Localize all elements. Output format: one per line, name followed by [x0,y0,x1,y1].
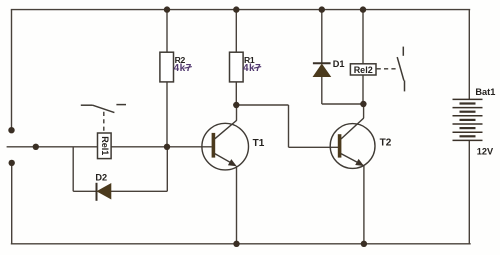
wire R1 bottom lead [235,82,237,105]
wire T1 emitter vertical [236,166,238,244]
relay coil Rel2 [350,64,376,75]
wire R2 top lead [166,10,168,53]
wire T2 emitter vertical [363,166,365,244]
wire left rail upper segment [11,10,13,128]
relay contact switch (above Rel1, open) [81,105,126,113]
node dot top rail Rel2 [360,6,366,12]
battery Bat1 [453,99,483,140]
svg-text:Bat1: Bat1 [475,87,495,97]
transistor T1 [202,120,265,169]
wire D2 branch right horizontal [111,190,168,192]
wire left rail lower segment [11,163,13,244]
wire top supply rail [11,9,470,11]
node B dot (R1 / T1 collector) [233,102,239,108]
node dot top rail R1 [233,6,239,12]
wire D1 to node C horizontal [322,103,364,105]
wire T2 collector vertical [363,104,365,118]
wire D2 branch left vertical [72,147,74,192]
svg-text:T1: T1 [253,138,265,149]
wire T1 collector vertical [236,105,238,121]
svg-text:T2: T2 [380,137,392,148]
relay coil Rel1 [98,133,112,159]
value label 4k7 (R2) [174,63,192,74]
svg-text:Rel2: Rel2 [354,65,373,75]
resistor R1 [230,52,255,82]
transistor T2 [330,118,392,168]
node A dot (R2 / Rel1 / D2 / T1 base) [164,144,170,150]
wire node A main horizontal (switch arm to T1 base) [7,146,212,148]
svg-text:D2: D2 [95,172,107,182]
contact dot left upper [8,127,14,133]
wire right rail upper (to battery) [468,10,470,100]
node dot switch arm pivot [33,144,39,150]
svg-text:Rel1: Rel1 [100,136,110,155]
dashed actuator link Rel2 [377,68,398,70]
node dot bottom rail T1 emitter [233,241,239,247]
relay contact switch (right, open) [397,47,404,92]
wire R1 top lead [235,10,237,53]
value label 4k7 (R1) [243,63,261,74]
wire R2 bottom lead [166,82,168,147]
dashed actuator link Rel1 [103,112,105,133]
wire D2 branch left horizontal [73,190,96,192]
node C dot (D1 / Rel2 / T2 collector) [360,101,366,107]
node dot top rail R2 [164,6,170,12]
node dot top rail D1 [319,6,325,12]
wire D1 bottom lead [321,76,323,104]
svg-text:12V: 12V [477,147,494,157]
wire right rail lower (from battery) [468,140,470,243]
wire node B horizontal (R1 to T2 base link) [236,104,288,106]
svg-text:4k7: 4k7 [174,63,192,74]
svg-text:4k7: 4k7 [243,63,261,74]
svg-text:D1: D1 [333,59,345,69]
wire D1 top lead [321,10,323,64]
wire Rel2 top lead [362,10,364,64]
wire link vertical down [288,105,290,147]
node dot bottom rail T2 emitter [361,241,367,247]
diode D2 [95,172,110,200]
wire D2 branch right vertical [166,147,168,192]
wire T2 base horizontal [289,146,339,148]
contact dot left lower [9,160,15,166]
diode D1 [313,59,345,77]
wire bottom supply rail [11,243,471,245]
resistor R2 [160,52,186,82]
wire Rel2 bottom lead [362,75,364,104]
